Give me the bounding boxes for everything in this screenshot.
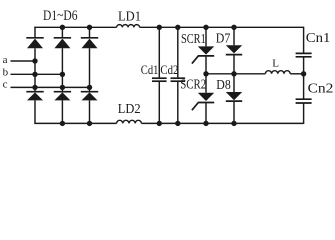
- capacitor Cd1: [152, 78, 167, 81]
- wire bridge column 1: [34, 27, 36, 124]
- node top rail D7: [231, 25, 236, 30]
- svg-text:D1~D6: D1~D6: [43, 8, 78, 24]
- inductor LD2: [117, 120, 142, 123]
- node bottom rail column 2: [60, 121, 65, 126]
- node top rail Cd1: [157, 25, 162, 30]
- node phase b junction: [60, 72, 65, 77]
- svg-text:L: L: [272, 58, 279, 70]
- svg-text:LD2: LD2: [118, 101, 141, 116]
- wire middle output line right segment: [290, 73, 303, 75]
- diode D4 (bridge lower, phase a): [26, 92, 43, 101]
- node phase b / column 1 junction: [32, 72, 37, 77]
- inductor L: [265, 71, 290, 74]
- diode D8: [226, 92, 242, 101]
- node top rail Cd2: [175, 25, 180, 30]
- diode D7: [226, 45, 242, 54]
- node middle D7 D8 junction: [231, 71, 236, 76]
- node bottom rail SCR2: [203, 121, 208, 126]
- svg-text:D7: D7: [216, 30, 231, 45]
- node top rail column 2: [60, 25, 65, 30]
- node bottom rail Cd2: [175, 121, 180, 126]
- wire phase b input: [11, 73, 63, 75]
- capacitor Cn1: [296, 53, 312, 56]
- svg-text:Cd1: Cd1: [141, 63, 159, 77]
- wire bottom rail left segment: [34, 122, 116, 124]
- wire SCR branch: [205, 27, 207, 123]
- wire capacitor Cd1 branch: [158, 27, 160, 123]
- diode D5 (bridge upper, phase c): [81, 38, 98, 48]
- node phase c junction: [87, 85, 92, 90]
- wire middle output line left segment: [206, 73, 265, 75]
- capacitor Cd2: [171, 78, 186, 81]
- svg-text:a: a: [3, 54, 8, 66]
- node bottom rail column 3: [87, 121, 92, 126]
- wire right output rail: [303, 27, 305, 124]
- wire phase a input: [11, 60, 36, 62]
- wire top rail right segment: [140, 26, 304, 28]
- node top rail SCR1: [203, 25, 208, 30]
- wire diode D7 D8 branch: [233, 27, 235, 123]
- wire bridge column 3: [89, 27, 91, 123]
- diode D1 (bridge upper, phase a): [26, 38, 43, 48]
- svg-text:Cn2: Cn2: [308, 81, 334, 96]
- wire phase c input: [11, 86, 90, 88]
- svg-text:LD1: LD1: [118, 8, 141, 23]
- node phase c / column 1 junction: [32, 85, 37, 90]
- svg-text:b: b: [3, 67, 9, 79]
- svg-text:c: c: [3, 78, 8, 90]
- svg-text:D8: D8: [216, 77, 231, 92]
- wire bottom rail right segment: [141, 122, 303, 124]
- thyristor SCR2: [192, 93, 214, 110]
- inductor LD1: [117, 25, 140, 28]
- wire top rail left segment: [34, 26, 116, 28]
- diode D6 (bridge lower, phase b): [54, 92, 71, 101]
- capacitor Cn2: [296, 99, 312, 103]
- svg-text:Cd2: Cd2: [160, 63, 178, 77]
- svg-text:Cn1: Cn1: [306, 30, 331, 45]
- node bottom rail Cd1: [157, 121, 162, 126]
- svg-text:SCR1: SCR1: [181, 31, 206, 46]
- diode D2 (bridge lower, phase c): [81, 92, 98, 101]
- thyristor SCR1: [192, 46, 214, 63]
- diode D3 (bridge upper, phase b): [54, 38, 71, 48]
- node phase c / column 2 junction: [60, 85, 65, 90]
- node middle Cn junction: [301, 71, 306, 76]
- wire bridge column 2: [61, 27, 63, 123]
- node phase a junction: [32, 58, 37, 63]
- node middle SCR junction: [203, 71, 208, 76]
- svg-text:SCR2: SCR2: [180, 76, 206, 91]
- wire capacitor Cd2 branch: [177, 27, 179, 123]
- node bottom rail D8: [231, 121, 236, 126]
- node top rail column 3: [87, 25, 92, 30]
